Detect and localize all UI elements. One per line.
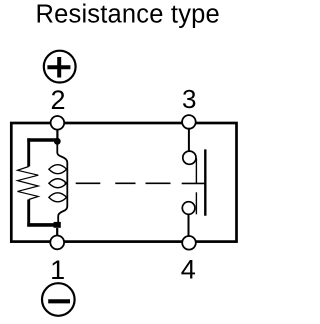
svg-text:1: 1 xyxy=(50,255,65,285)
svg-text:2: 2 xyxy=(50,85,65,115)
svg-text:Resistance type: Resistance type xyxy=(36,1,220,29)
svg-text:3: 3 xyxy=(182,84,196,114)
svg-text:4: 4 xyxy=(181,255,196,285)
